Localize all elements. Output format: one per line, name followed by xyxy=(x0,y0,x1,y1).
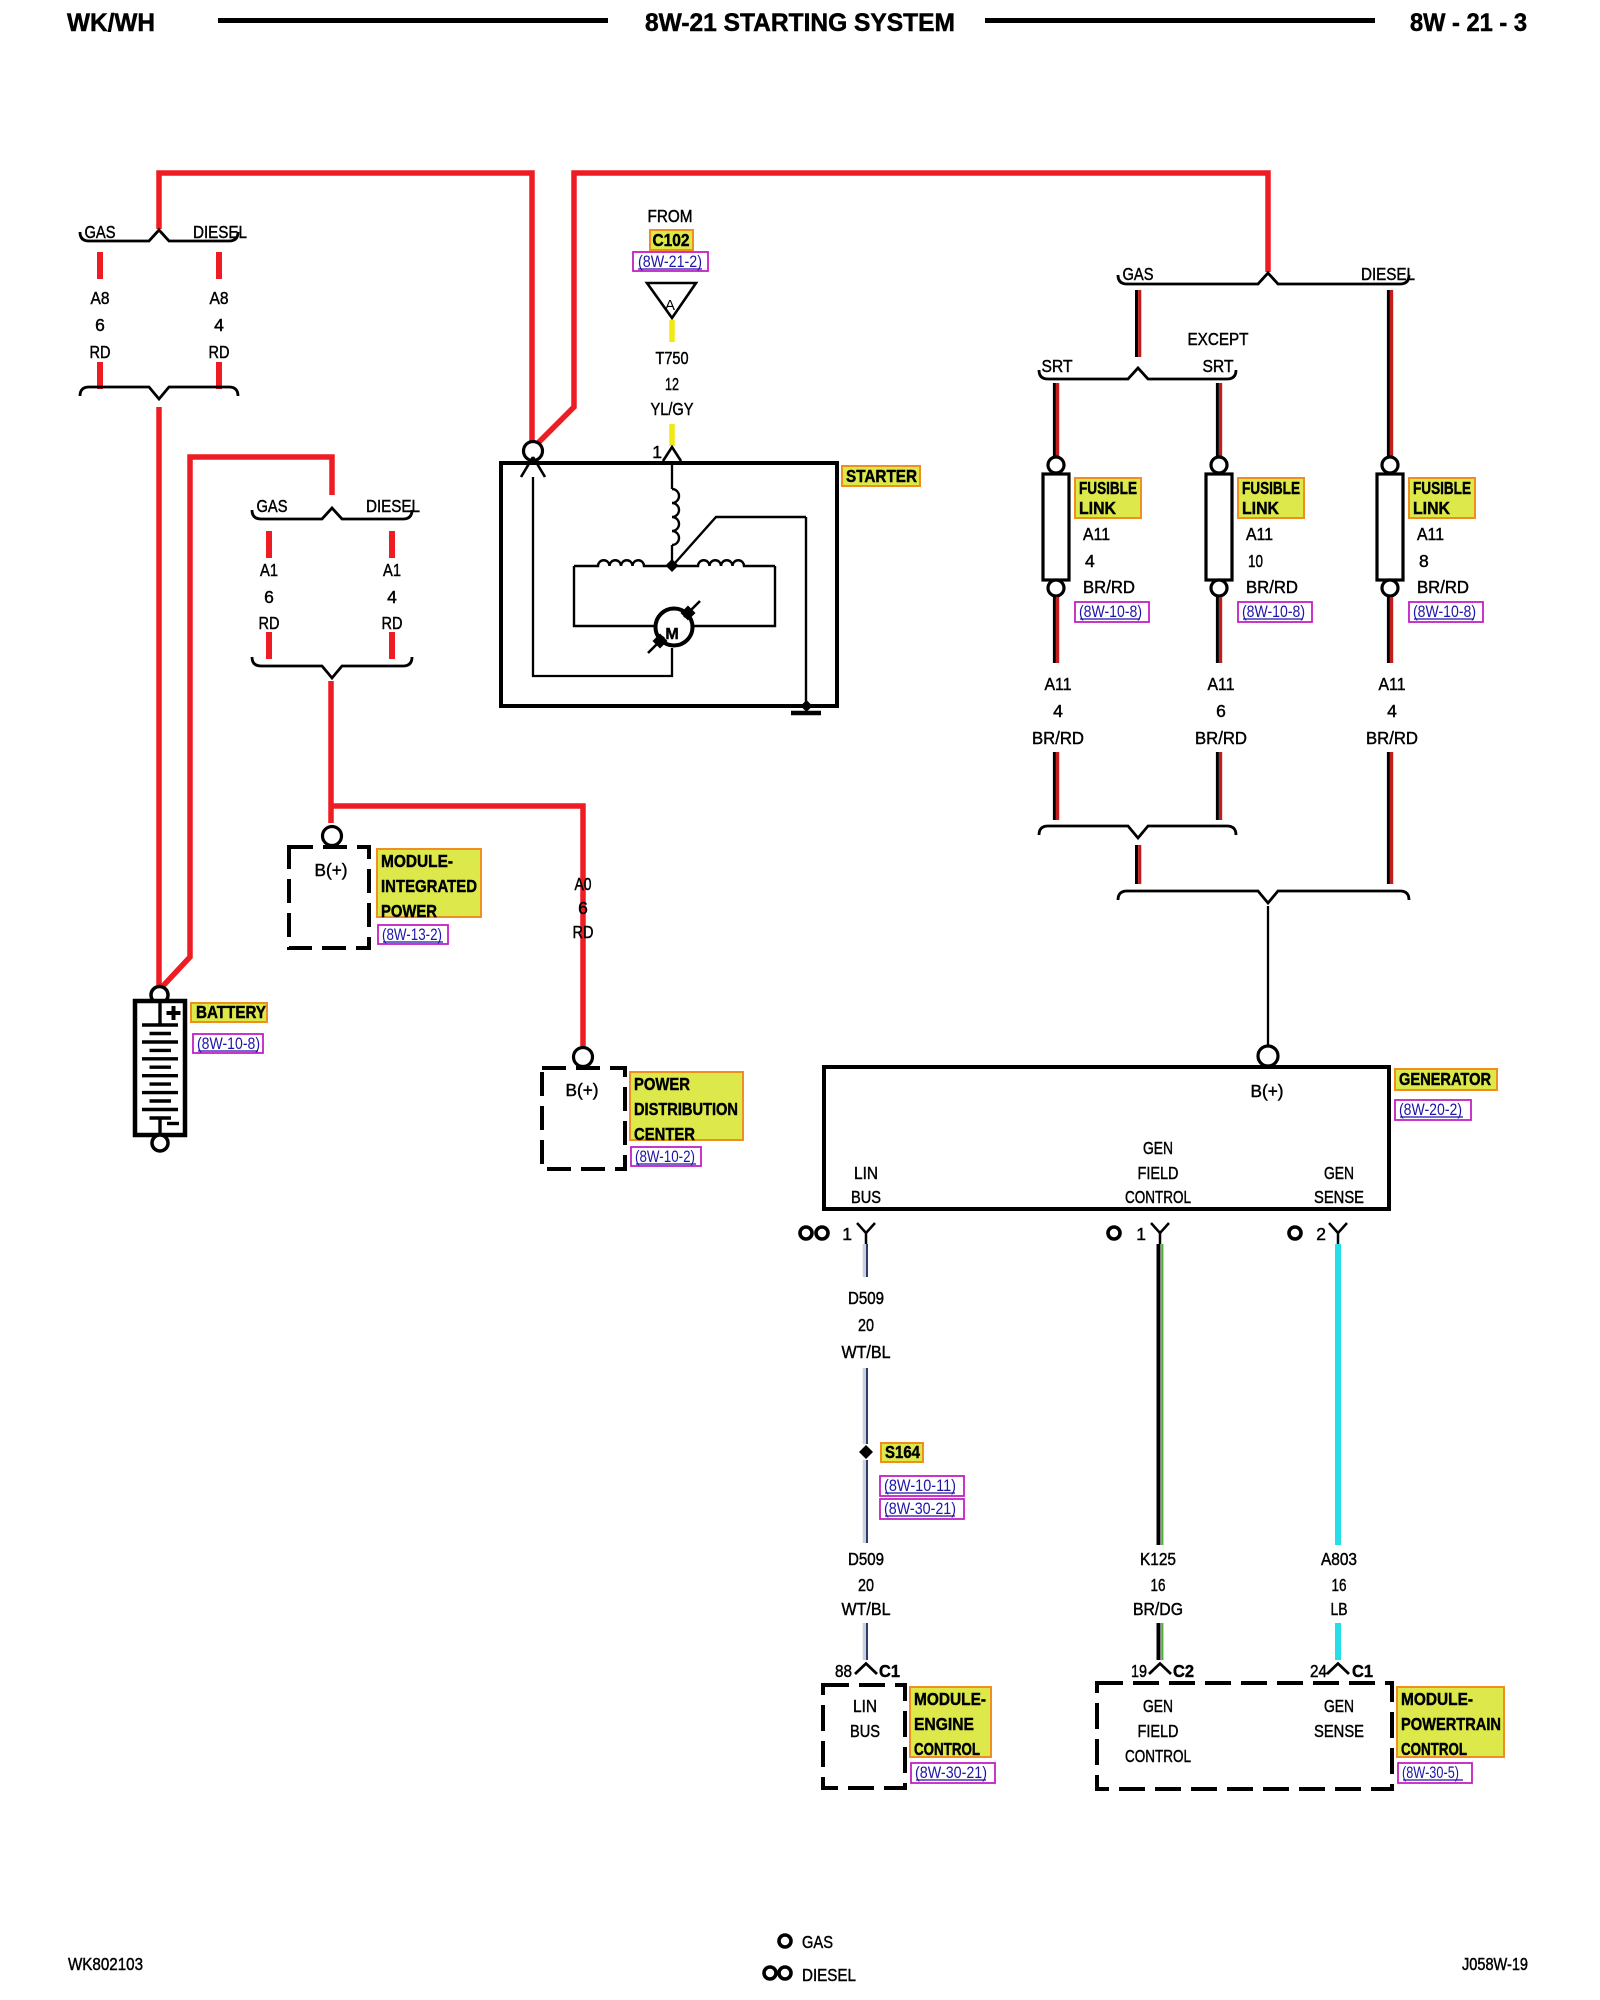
link 8W-13-2 xyxy=(378,925,448,944)
svg-text:6: 6 xyxy=(264,587,274,607)
svg-text:20: 20 xyxy=(858,1315,874,1335)
svg-text:CONTROL: CONTROL xyxy=(1125,1746,1191,1766)
connector chevron 19 xyxy=(1149,1664,1171,1675)
wire F3 to brace xyxy=(1387,752,1390,884)
wire merged to generator B+ xyxy=(1267,906,1269,1045)
connector chevron starter pin 1 xyxy=(663,447,681,461)
label MODULE-ENGINE CONTROL xyxy=(910,1687,991,1757)
svg-text:RD: RD xyxy=(90,342,111,362)
brace right top xyxy=(1118,273,1409,284)
gas/diesel marker rings LIN pin (diesel) xyxy=(800,1227,812,1239)
link 8W-10-8 F1 xyxy=(1075,602,1149,622)
svg-text:YL/GY: YL/GY xyxy=(651,399,694,419)
svg-text:1: 1 xyxy=(1136,1224,1146,1244)
wire gas merged BR/RD xyxy=(1135,845,1138,884)
starter field winding right xyxy=(676,560,775,566)
wire red brace1 to battery xyxy=(156,407,162,985)
battery minus sign xyxy=(167,1122,179,1125)
wire starter internal ground run xyxy=(805,517,807,705)
fusible link F1 xyxy=(1048,457,1064,473)
svg-text:M: M xyxy=(665,626,678,643)
module-integrated power box xyxy=(289,847,369,948)
label MODULE-POWERTRAIN CONTROL xyxy=(1397,1687,1504,1757)
wire T750 yellow lower segment xyxy=(669,424,675,446)
svg-text:8W - 21 - 3: 8W - 21 - 3 xyxy=(1410,9,1527,37)
svg-text:(8W-10-11): (8W-10-11) xyxy=(884,1477,956,1495)
battery plates xyxy=(142,1025,178,1118)
svg-text:DIESEL: DIESEL xyxy=(802,1965,856,1985)
off-page connector triangle A xyxy=(647,283,696,318)
svg-text:A8: A8 xyxy=(210,288,229,308)
connector Y GEN SENSE xyxy=(1329,1223,1347,1244)
wire field winding frame xyxy=(574,566,775,626)
battery negative post lead xyxy=(158,1118,161,1135)
wire fusible link 2 feed xyxy=(1216,383,1219,456)
wire A803 LB segment 2 xyxy=(1335,1623,1341,1660)
svg-text:19: 19 xyxy=(1131,1661,1147,1681)
svg-text:BR/RD: BR/RD xyxy=(1417,577,1469,597)
svg-text:BR/RD: BR/RD xyxy=(1032,728,1084,748)
svg-text:ENGINE: ENGINE xyxy=(914,1714,974,1734)
fusible link F3 xyxy=(1382,457,1398,473)
link 8W-20-2 generator xyxy=(1395,1100,1471,1120)
wire A8 4 RD diesel dashed xyxy=(216,252,222,389)
wire red battery positive to MIP branch xyxy=(162,457,332,987)
svg-text:4: 4 xyxy=(1053,701,1063,721)
svg-text:A11: A11 xyxy=(1045,674,1072,694)
power distribution center B+ terminal xyxy=(574,1048,593,1067)
svg-text:LINK: LINK xyxy=(1242,498,1279,518)
starter solenoid contact arm xyxy=(675,517,806,563)
legend diesel rings xyxy=(764,1967,776,1979)
svg-text:(8W-10-8): (8W-10-8) xyxy=(197,1035,260,1053)
brace SRT split xyxy=(1039,368,1236,379)
svg-text:WT/BL: WT/BL xyxy=(842,1342,891,1362)
svg-text:FUSIBLE: FUSIBLE xyxy=(1413,478,1471,498)
brace group1 bottom xyxy=(80,387,238,399)
svg-text:BUS: BUS xyxy=(851,1187,881,1207)
svg-text:GEN: GEN xyxy=(1143,1138,1173,1158)
svg-text:(8W-30-5): (8W-30-5) xyxy=(1402,1764,1459,1782)
svg-text:A8: A8 xyxy=(91,288,110,308)
svg-text:GAS: GAS xyxy=(85,222,116,242)
wire fusible link 3 out xyxy=(1387,597,1390,663)
svg-text:B(+): B(+) xyxy=(315,860,348,880)
battery positive terminal eyelet xyxy=(151,987,168,1004)
svg-text:(8W-13-2): (8W-13-2) xyxy=(382,926,442,944)
svg-text:MODULE-: MODULE- xyxy=(1401,1689,1473,1709)
svg-text:GEN: GEN xyxy=(1143,1696,1173,1716)
brace group1 top xyxy=(80,230,238,241)
link 8W-21-2 xyxy=(633,252,708,271)
module-integrated power B+ terminal xyxy=(323,827,342,846)
svg-text:GAS: GAS xyxy=(1123,264,1154,284)
label FUSIBLE LINK F3 xyxy=(1409,478,1475,518)
svg-text:LIN: LIN xyxy=(853,1696,877,1716)
svg-text:(8W-10-8): (8W-10-8) xyxy=(1413,603,1476,621)
label FUSIBLE LINK F1 xyxy=(1075,478,1141,518)
starter solenoid coil xyxy=(672,489,679,545)
svg-text:88: 88 xyxy=(835,1661,852,1681)
svg-text:CENTER: CENTER xyxy=(634,1124,695,1144)
link 8W-30-21 ECM xyxy=(911,1763,995,1783)
wire starter B+ internal to motor xyxy=(533,477,672,676)
svg-text:8: 8 xyxy=(1419,551,1429,571)
svg-text:24: 24 xyxy=(1310,1661,1327,1681)
svg-text:CONTROL: CONTROL xyxy=(914,1739,980,1759)
label S164 xyxy=(881,1443,923,1462)
svg-text:4: 4 xyxy=(387,587,397,607)
wire A1 6 RD gas dashed xyxy=(266,531,272,659)
wire fusible link 1 feed xyxy=(1053,383,1056,456)
svg-text:J058W-19: J058W-19 xyxy=(1462,1954,1528,1974)
svg-text:6: 6 xyxy=(1216,701,1226,721)
svg-text:(8W-30-21): (8W-30-21) xyxy=(884,1500,956,1518)
starter B+ stud eyelet xyxy=(524,442,543,461)
connector Y GEN FIELD xyxy=(1151,1223,1169,1244)
wire K125 BR/DG segment 2 xyxy=(1157,1623,1161,1660)
wire A8 6 RD gas dashed xyxy=(97,252,103,389)
svg-text:6: 6 xyxy=(95,315,105,335)
svg-text:POWERTRAIN: POWERTRAIN xyxy=(1401,1714,1501,1734)
svg-text:6: 6 xyxy=(578,898,588,918)
svg-text:4: 4 xyxy=(1085,551,1095,571)
svg-text:C102: C102 xyxy=(653,230,690,250)
svg-text:(8W-21-2): (8W-21-2) xyxy=(638,253,702,271)
link 8W-30-5 PCM xyxy=(1398,1763,1472,1783)
svg-text:A11: A11 xyxy=(1208,674,1235,694)
svg-text:GAS: GAS xyxy=(257,496,288,516)
svg-text:FROM: FROM xyxy=(648,206,693,226)
connector C102 label xyxy=(650,230,693,250)
svg-text:CONTROL: CONTROL xyxy=(1125,1187,1191,1207)
svg-text:D509: D509 xyxy=(848,1288,884,1308)
svg-text:A11: A11 xyxy=(1246,524,1273,544)
svg-text:1: 1 xyxy=(652,442,662,462)
svg-text:(8W-20-2): (8W-20-2) xyxy=(1399,1101,1462,1119)
power distribution center box xyxy=(542,1068,625,1169)
svg-text:D509: D509 xyxy=(848,1549,884,1569)
svg-text:A11: A11 xyxy=(1417,524,1444,544)
svg-text:BR/RD: BR/RD xyxy=(1195,728,1247,748)
svg-text:4: 4 xyxy=(214,315,224,335)
svg-text:A: A xyxy=(665,297,675,314)
svg-text:GENERATOR: GENERATOR xyxy=(1399,1069,1491,1089)
link 8W-10-8 battery xyxy=(193,1034,263,1053)
svg-text:EXCEPT: EXCEPT xyxy=(1188,329,1249,349)
link 8W-30-21 splice xyxy=(880,1499,964,1519)
starter case xyxy=(501,463,837,706)
svg-text:B(+): B(+) xyxy=(1251,1081,1284,1101)
fusible link F2 xyxy=(1211,457,1227,473)
wire D509 WT/BL segment 2 xyxy=(863,1368,866,1444)
starter field winding left xyxy=(574,560,672,566)
svg-text:A11: A11 xyxy=(1379,674,1406,694)
wire D509 WT/BL segment 4 xyxy=(863,1623,866,1660)
battery case xyxy=(135,1001,185,1135)
splice S164 xyxy=(859,1445,873,1459)
svg-text:A1: A1 xyxy=(260,560,278,580)
wire coil to junction xyxy=(671,545,673,562)
wire D509 WT/BL segment 1 xyxy=(863,1244,866,1277)
svg-text:A11: A11 xyxy=(1083,524,1110,544)
brace group2 bottom xyxy=(252,657,412,678)
svg-text:LINK: LINK xyxy=(1413,498,1450,518)
label GENERATOR xyxy=(1395,1069,1497,1090)
generator B+ terminal eyelet xyxy=(1258,1046,1278,1066)
connector Y LIN xyxy=(857,1223,875,1244)
svg-text:GAS: GAS xyxy=(802,1932,833,1952)
label MODULE-INTEGRATED POWER xyxy=(377,849,481,917)
svg-text:LIN: LIN xyxy=(854,1163,878,1183)
gas marker ring sense pin xyxy=(1289,1227,1301,1239)
svg-text:T750: T750 xyxy=(656,348,689,368)
wire K125 BR/DG segment 1 xyxy=(1157,1244,1161,1545)
legend gas ring xyxy=(779,1935,791,1947)
svg-text:WT/BL: WT/BL xyxy=(842,1599,891,1619)
battery plus sign xyxy=(167,1006,181,1020)
junction starter ground node xyxy=(801,700,813,712)
connector chevron 24 xyxy=(1327,1664,1349,1675)
label POWER DISTRIBUTION CENTER xyxy=(630,1072,743,1140)
svg-text:FIELD: FIELD xyxy=(1138,1721,1179,1741)
svg-text:20: 20 xyxy=(858,1575,874,1595)
svg-text:LINK: LINK xyxy=(1079,498,1116,518)
wire red brace2 to MIP B+ xyxy=(328,681,334,823)
svg-text:C2: C2 xyxy=(1173,1661,1194,1681)
svg-text:LB: LB xyxy=(1331,1599,1348,1619)
wire fusible link 3 feed diesel xyxy=(1387,290,1390,456)
generator box xyxy=(824,1067,1389,1209)
connector chevron starter B+ xyxy=(521,457,545,477)
wire solenoid pin1 internal xyxy=(671,462,673,489)
svg-text:POWER: POWER xyxy=(634,1074,690,1094)
svg-text:GEN: GEN xyxy=(1324,1163,1354,1183)
starter motor M xyxy=(656,609,693,646)
svg-text:C1: C1 xyxy=(879,1661,900,1681)
wire fusible link 1 out xyxy=(1053,597,1056,663)
svg-text:MODULE-: MODULE- xyxy=(914,1689,986,1709)
wire D509 WT/BL segment 3 xyxy=(863,1460,866,1543)
svg-text:12: 12 xyxy=(665,374,679,394)
header rule right xyxy=(985,18,1375,23)
svg-text:INTEGRATED: INTEGRATED xyxy=(381,876,477,896)
svg-text:16: 16 xyxy=(1151,1575,1166,1595)
brace group2 top xyxy=(252,508,412,519)
svg-text:SENSE: SENSE xyxy=(1314,1721,1364,1741)
svg-text:RD: RD xyxy=(573,922,594,942)
wire fusible link 2 out xyxy=(1216,597,1219,663)
wire A1 4 RD diesel dashed xyxy=(389,531,395,659)
svg-text:BATTERY: BATTERY xyxy=(196,1002,266,1022)
svg-text:WK/WH: WK/WH xyxy=(67,9,155,37)
wire red branch to PDC xyxy=(331,806,583,1046)
svg-text:(8W-30-21): (8W-30-21) xyxy=(915,1764,987,1782)
svg-text:CONTROL: CONTROL xyxy=(1401,1739,1467,1759)
wire red battery feed to starter B+ xyxy=(159,173,532,446)
svg-text:(8W-10-2): (8W-10-2) xyxy=(635,1148,695,1166)
svg-text:(8W-10-8): (8W-10-8) xyxy=(1079,603,1142,621)
svg-text:16: 16 xyxy=(1332,1575,1347,1595)
svg-text:4: 4 xyxy=(1387,701,1397,721)
svg-text:BR/RD: BR/RD xyxy=(1083,577,1135,597)
svg-text:RD: RD xyxy=(382,613,403,633)
svg-text:MODULE-: MODULE- xyxy=(381,851,453,871)
svg-text:K125: K125 xyxy=(1140,1549,1176,1569)
svg-text:SRT: SRT xyxy=(1203,356,1234,376)
wire T750 12 YL/GY yellow upper segment xyxy=(669,320,675,342)
starter motor brush lower xyxy=(653,634,668,649)
svg-text:BR/RD: BR/RD xyxy=(1246,577,1298,597)
module-powertrain control box xyxy=(1097,1683,1392,1789)
svg-text:SENSE: SENSE xyxy=(1314,1187,1364,1207)
label STARTER xyxy=(842,466,920,486)
starter motor brush upper xyxy=(681,606,696,621)
svg-text:A0: A0 xyxy=(575,874,592,894)
wire A803 LB segment 1 xyxy=(1335,1244,1341,1545)
svg-text:2: 2 xyxy=(1316,1224,1326,1244)
link 8W-10-8 F2 xyxy=(1238,602,1312,622)
svg-text:1: 1 xyxy=(842,1224,852,1244)
svg-text:BUS: BUS xyxy=(850,1721,880,1741)
svg-text:SRT: SRT xyxy=(1042,356,1073,376)
svg-text:A803: A803 xyxy=(1321,1549,1357,1569)
svg-text:B(+): B(+) xyxy=(566,1080,599,1100)
header rule left xyxy=(218,18,608,23)
svg-text:FUSIBLE: FUSIBLE xyxy=(1079,478,1137,498)
svg-text:S164: S164 xyxy=(885,1442,920,1462)
svg-text:FUSIBLE: FUSIBLE xyxy=(1242,478,1300,498)
label BATTERY xyxy=(191,1003,267,1022)
brace gas merge bottom xyxy=(1039,826,1236,838)
svg-text:RD: RD xyxy=(209,342,230,362)
svg-text:BR/RD: BR/RD xyxy=(1366,728,1418,748)
wire red generator feed to starter B+ xyxy=(536,173,1268,445)
svg-text:10: 10 xyxy=(1248,551,1263,571)
battery positive post lead xyxy=(158,1003,161,1025)
svg-text:RD: RD xyxy=(259,613,280,633)
svg-text:8W-21 STARTING SYSTEM: 8W-21 STARTING SYSTEM xyxy=(645,9,955,37)
junction solenoid node xyxy=(666,559,679,572)
svg-text:A1: A1 xyxy=(383,560,401,580)
brace generator merge bottom xyxy=(1118,891,1409,903)
gas marker ring field pin xyxy=(1108,1227,1120,1239)
link 8W-10-11 xyxy=(880,1476,964,1496)
ground starter xyxy=(791,711,821,716)
wire F2 to brace xyxy=(1216,752,1219,820)
svg-text:DISTRIBUTION: DISTRIBUTION xyxy=(634,1099,738,1119)
connector chevron 88 xyxy=(855,1664,877,1675)
svg-text:POWER: POWER xyxy=(381,901,437,921)
link 8W-10-8 F3 xyxy=(1409,602,1483,622)
link 8W-10-2 xyxy=(631,1147,701,1166)
svg-text:GEN: GEN xyxy=(1324,1696,1354,1716)
svg-text:WK802103: WK802103 xyxy=(68,1954,143,1974)
svg-text:STARTER: STARTER xyxy=(846,466,917,486)
module-engine control box xyxy=(823,1685,905,1788)
svg-text:FIELD: FIELD xyxy=(1138,1163,1179,1183)
battery negative terminal eyelet xyxy=(152,1135,168,1151)
wire F1 to brace xyxy=(1053,752,1056,820)
wire gas feed BR/RD upper xyxy=(1135,290,1138,357)
svg-text:BR/DG: BR/DG xyxy=(1133,1599,1183,1619)
svg-text:(8W-10-8): (8W-10-8) xyxy=(1242,603,1305,621)
label FUSIBLE LINK F2 xyxy=(1238,478,1304,518)
svg-text:C1: C1 xyxy=(1352,1661,1373,1681)
